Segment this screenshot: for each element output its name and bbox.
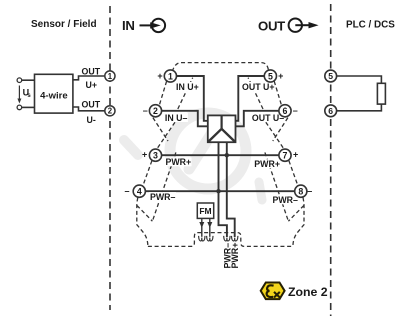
outline from 6 down-left [273,118,288,141]
svg-text:+: + [293,150,298,160]
wire terminal 1 to isolator (IN U+) [176,76,208,121]
wire 4-wire box to terminal 2 (OUT U-) [73,107,104,111]
module terminal 4 [133,185,145,197]
plug fork contact FM left [199,236,205,241]
svg-text:4: 4 [137,187,142,197]
FM wire right with down arrow [207,218,212,236]
plug fork contact PWR- [224,236,230,241]
field-side terminal 1 [105,71,115,81]
svg-text:+: + [142,150,147,160]
svg-text:–: – [124,186,129,196]
wire load resistor to PLC 6 [336,104,381,111]
PLC terminal 5 [325,70,337,82]
svg-text:FM: FM [199,206,211,216]
isolator U1 (3-port isolation symbol) [208,115,236,142]
svg-text:2: 2 [108,107,113,116]
watermark [124,113,262,200]
svg-text:PWR–: PWR– [273,195,299,205]
outline 7 up-left (lower part) [260,113,283,147]
svg-text:U+: U+ [86,80,98,90]
wire terminal 2 to isolator (IN U-) [161,111,208,127]
junction dot PWR+ [225,153,229,157]
plug fork contact PWR+ [232,236,238,241]
outline 3 up-right (upper part) [178,78,193,109]
svg-text:IN U+: IN U+ [176,82,199,92]
svg-text:8: 8 [298,187,303,197]
svg-text:–: – [293,106,298,116]
svg-text:OUT U+: OUT U+ [242,82,275,92]
header IN with arrow-into-circle icon [122,18,165,33]
svg-text:3: 3 [153,151,158,161]
module dashed outline [137,63,304,247]
field-side terminal 2 [105,106,115,116]
zone divider right (module | PLC/DCS) [330,4,332,316]
svg-text:OUT: OUT [82,100,101,110]
svg-text:1: 1 [108,72,113,81]
outline below 4 (outer left) [137,198,148,247]
outline 3 up-right (lower part) [158,113,181,147]
top outline terminal 1 to 5 [172,63,268,72]
svg-text:6: 6 [283,106,288,116]
outline 7 up-left (upper part) [248,78,263,109]
wire 4-wire box to terminal 1 (OUT U+) [73,76,104,80]
svg-text:PWR+: PWR+ [254,159,280,169]
label backgrounds [149,82,299,204]
svg-text:–: – [307,186,312,196]
svg-text:6: 6 [328,106,333,116]
wire terminal 6 to isolator (OUT U-) [236,111,280,127]
svg-text:2: 2 [153,106,158,116]
bottom outline with plug notch [148,233,293,247]
svg-text:5: 5 [328,71,333,81]
header OUT with arrow-out-of-circle icon [258,19,319,34]
sensor terminal top (open circle) [17,78,22,83]
zone divider left (Sensor/Field | module) [109,6,111,310]
svg-text:PWR+: PWR+ [166,157,192,167]
outline 1 to 2 [159,81,166,105]
wire isolator power right leg to PWR+ plug [227,142,235,237]
module terminal 3 [149,149,161,161]
wire terminal 5 to isolator (OUT U+) [236,76,265,121]
svg-text:IN U–: IN U– [165,113,188,123]
wire PLC 5 to load resistor [336,76,381,83]
outline 3 to 4 [143,161,152,185]
outline inner V right arm [288,205,304,221]
svg-text:OUT: OUT [82,66,101,76]
wire isolator power left leg to PWR- plug [219,142,227,237]
load resistor [377,83,385,104]
FM wire left with down arrow [199,218,204,236]
svg-text:IN: IN [122,18,135,33]
outline steep inner right [265,152,289,221]
PWR+ rail terminal 3 to 7 [161,154,279,156]
module terminal 1 [164,70,176,82]
wire sensor top to 4-wire box [22,79,35,81]
svg-text:–: – [143,106,148,116]
outline from 2 down-right [153,118,168,141]
svg-text:PWR–: PWR– [150,192,176,202]
FM power module box [197,203,213,218]
svg-text:Zone 2: Zone 2 [288,285,328,299]
outline 5 to 6 [274,81,281,105]
outline below 8 (outer right) [293,198,304,247]
4-wire transmitter box [35,74,73,113]
Ex hexagon logo [261,283,285,300]
outline steep inner left [152,152,176,221]
svg-text:7: 7 [283,151,288,161]
svg-text:OUT: OUT [258,19,285,34]
module terminal 5 [264,70,276,82]
svg-text:PWR+: PWR+ [230,243,240,269]
svg-text:5: 5 [268,71,273,81]
outline 7 to 8 [289,161,298,185]
outline inner V left arm [137,205,153,221]
plug fork contact FM right [207,236,213,241]
wire sensor bottom to 4-wire box [22,106,35,108]
module terminal 7 [279,149,291,161]
svg-text:4-wire: 4-wire [40,90,67,101]
svg-text:PLC / DCS: PLC / DCS [346,19,395,30]
module terminal 8 [295,185,307,197]
junction dot PWR- [216,189,220,193]
module terminal 2 [149,105,161,117]
svg-text:Sensor / Field: Sensor / Field [31,19,97,30]
svg-text:+: + [278,71,283,81]
svg-text:+: + [157,71,162,81]
PLC terminal 6 [325,105,337,117]
svg-text:1: 1 [168,71,173,81]
Us source arrow [17,86,31,104]
svg-text:U-: U- [87,115,96,125]
sensor terminal bottom (open circle) [17,105,22,110]
module terminal 6 [279,105,291,117]
PWR- rail terminal 4 to 8 [145,190,295,192]
